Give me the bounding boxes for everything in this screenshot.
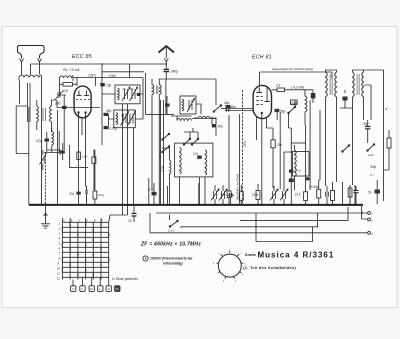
resistor box x332.5 — [331, 191, 335, 201]
wire right rail down — [383, 108, 385, 201]
band button D — [106, 286, 111, 292]
svg-text:Ph: Ph — [115, 287, 119, 291]
wire r20k — [267, 128, 274, 188]
capacitor left polarized — [85, 186, 88, 204]
wire box links — [102, 78, 143, 127]
wire 30p left — [78, 190, 80, 204]
terminal e3 — [368, 231, 371, 234]
coil L1 primary (horizontal bumps) — [19, 75, 42, 81]
capacitor blob 0,5u left2 — [61, 151, 65, 154]
band button F — [80, 286, 85, 292]
svg-text:D: D — [108, 287, 110, 291]
wire drop x154 — [153, 183, 155, 204]
tube V2 right electrode — [265, 88, 270, 102]
svg-text:+105: +105 — [108, 74, 116, 78]
box1 coil — [118, 88, 120, 100]
wire x57.5 long drop — [57, 110, 59, 204]
osc coil 1 — [180, 148, 182, 174]
wire coil to blob — [171, 116, 216, 136]
capacitor C blob 0,25u — [104, 126, 109, 129]
wire left box edge x145.4 — [145, 73, 174, 114]
line L1 y213 — [156, 212, 367, 214]
wire switch to cap — [221, 108, 226, 110]
svg-text:2: 2 — [58, 226, 61, 230]
IF T1 winding b — [335, 72, 337, 97]
svg-text:ECC 85: ECC 85 — [72, 54, 92, 60]
capacitor blob 5n mid — [165, 104, 170, 107]
line L2 y220.4 from corner x348 — [240, 204, 367, 220]
box2 coil — [116, 113, 118, 125]
wire left cluster — [93, 149, 95, 190]
wire verticals pair x122.5/127.5 — [110, 104, 128, 215]
wire rail y72 top — [260, 72, 333, 86]
wire into tube left: caps — [226, 105, 231, 108]
wire x57 down — [57, 95, 64, 118]
wire bus to ground — [44, 204, 48, 223]
wire rail y71.8 box top — [102, 71, 144, 73]
capacitor 30p right plates — [365, 127, 371, 129]
box1 trimmer arrows — [122, 87, 130, 101]
switch S2 diagonal U41 — [288, 107, 296, 114]
svg-text:0,5µ: 0,5µ — [98, 193, 104, 197]
svg-text:12: 12 — [57, 276, 61, 280]
matrix grid horizontals — [62, 222, 108, 277]
tube V1 anodes — [77, 91, 90, 96]
core lines FM transformer — [157, 86, 158, 95]
wire dial cord dashed x242.5 — [242, 90, 244, 204]
wire drop x148.8 — [148, 178, 150, 204]
wire rail y79 — [159, 78, 216, 80]
svg-text:ZF = 460kHz + 10,7MHz: ZF = 460kHz + 10,7MHz — [140, 242, 201, 248]
wire switch drop — [169, 215, 171, 228]
osc blob 12p — [197, 156, 202, 159]
capacitor blob 5n right — [375, 190, 381, 194]
svg-text:B: B — [71, 218, 73, 222]
svg-text:21 k: 21 k — [294, 193, 301, 197]
capacitor blob x291 — [289, 179, 294, 183]
coil M-band left — [52, 132, 54, 146]
socket pins ticks — [216, 251, 243, 279]
junction dots on bus — [45, 203, 47, 205]
tube V2 cathode dot — [261, 112, 263, 114]
tube V2 grid dashes — [256, 97, 263, 105]
components left of tube: trimmer C — [55, 91, 66, 100]
wire vertical x102 — [101, 64, 103, 145]
capacitor C 240p plates — [164, 69, 170, 71]
wire mid link — [162, 148, 170, 156]
wire antenna legs down — [22, 62, 40, 75]
line L4 y232.8 — [150, 232, 367, 234]
wire V2 anode out right — [272, 89, 314, 91]
wire solid vertical x239.6 — [239, 114, 241, 204]
wire y110 left into tube — [225, 110, 253, 112]
svg-text:reflexmäßig): reflexmäßig) — [163, 262, 183, 266]
IF T2 core — [357, 74, 359, 95]
coil L4 top — [60, 76, 74, 81]
core lines T1 — [28, 83, 31, 122]
extra vertical rail x95.5 tube top — [95, 78, 97, 87]
svg-text:12p: 12p — [193, 152, 198, 156]
wire tube bottom leads — [257, 113, 267, 186]
svg-text:5+3: 5+3 — [296, 169, 301, 173]
socket pin numbers — [213, 249, 246, 283]
antenna A2 dipole chevron — [159, 46, 175, 53]
box trimmer — [187, 99, 195, 113]
IF T1 wires — [326, 70, 337, 108]
matrix row numbers — [57, 221, 61, 280]
wire osc connections — [194, 104, 216, 124]
svg-text:2 k: 2 k — [275, 84, 281, 88]
wire UKW switch drop — [289, 100, 296, 170]
wire 5n — [376, 180, 378, 204]
svg-text:a 41: a 41 — [368, 153, 374, 157]
trimmer pair mid bottom — [211, 189, 219, 201]
wire below L1 — [20, 81, 42, 205]
resistor R1 47ohm — [63, 83, 73, 87]
svg-text:21,6: 21,6 — [251, 193, 258, 197]
coil IF2 secondary low — [295, 150, 297, 177]
tube V1 grid dashes — [76, 99, 90, 101]
FM tuner box1 — [115, 85, 140, 104]
matrix contact marks — [62, 223, 108, 277]
small winding left of box — [170, 160, 172, 174]
svg-text:20k: 20k — [276, 143, 283, 147]
switch right low — [342, 145, 350, 152]
svg-text:5n: 5n — [368, 191, 372, 195]
ground symbol — [41, 224, 50, 228]
capacitor C blob at tube left — [62, 106, 67, 109]
wire verticals x160/x163 mid — [161, 100, 164, 183]
wire left2 — [62, 143, 64, 160]
small box left mid — [47, 150, 60, 155]
capacitor blob 40p mid — [212, 124, 217, 127]
wire right rail lower — [384, 160, 390, 170]
wire vertical x229 with resistor 10n — [228, 115, 230, 204]
svg-text:1µ: 1µ — [128, 219, 132, 223]
oscillator box — [175, 143, 213, 177]
svg-text:1,5k: 1,5k — [82, 155, 88, 159]
wire rail y107.5 through tube — [57, 107, 100, 109]
coil L3 vertical — [50, 106, 52, 122]
resistor R 10n — [227, 191, 231, 198]
svg-text:10n: 10n — [221, 193, 226, 197]
svg-text:50p: 50p — [280, 110, 286, 114]
svg-text:10p: 10p — [106, 84, 112, 88]
wire long vertical x28.8 to bus — [29, 107, 46, 204]
circled note symbol — [143, 256, 148, 261]
wire blob — [312, 90, 314, 103]
FM tuner box2 — [114, 110, 136, 128]
wire fm windings tails — [152, 79, 159, 204]
switch S3 right — [367, 144, 375, 151]
capacitor C 40p plates — [227, 106, 229, 112]
resistor box x350 — [348, 188, 352, 197]
wire left station x45.4 dashed to bus — [44, 152, 46, 204]
svg-text:a: a — [386, 107, 388, 111]
IF T2 winding a — [353, 72, 355, 97]
core lines T2 — [43, 108, 46, 121]
wire drops trimmers — [215, 185, 223, 204]
capacitor plates x230 — [230, 193, 232, 198]
resistor R 20k below tube — [271, 140, 275, 148]
antenna A1 arrowheads — [20, 59, 42, 63]
wire switches to box top — [184, 128, 198, 139]
wire vertical x216 rail to switch — [215, 79, 217, 105]
capacitor blob 7n right — [311, 93, 316, 99]
resistor R right vertical — [387, 138, 391, 148]
svg-text:F: F — [101, 218, 103, 222]
capacitor plates x355 — [354, 191, 359, 193]
junction dot — [211, 117, 213, 119]
wire rail y64 from antenna to FM antenna — [31, 64, 167, 75]
wire drops — [274, 186, 284, 204]
trimmer bottom left — [40, 154, 47, 165]
wire corner left L4 — [150, 213, 181, 233]
tube V2 ECH81 envelope — [253, 85, 271, 118]
svg-text:D: D — [86, 218, 88, 222]
svg-text:128 k: 128 k — [88, 74, 96, 78]
wire around L4/R1 — [60, 78, 78, 96]
resistor R 1,5k on tube lead — [77, 152, 81, 160]
wire L-corner x69.6 — [70, 145, 88, 168]
wire x345 blob chain — [340, 90, 353, 108]
wire x350 — [349, 185, 351, 204]
tube V1 ECC85 envelope — [74, 86, 91, 118]
capacitor blob 0,1u — [152, 192, 157, 196]
switch S1 diagonal — [214, 105, 222, 112]
resistor R 2k horizontal — [277, 88, 285, 92]
matrix column letters — [62, 218, 104, 222]
capacitor blob 50p below tube right — [275, 109, 280, 112]
wire x86 upper — [86, 145, 87, 186]
wire IF leads down right — [326, 108, 364, 186]
tube V2 anode T — [257, 88, 263, 93]
wire trimmer bl — [42, 150, 44, 170]
switch M K U stack — [162, 134, 170, 153]
resistor box x305.5 — [304, 192, 308, 201]
svg-text:5,1Ω: 5,1Ω — [161, 165, 165, 172]
wire c2 — [129, 64, 131, 78]
svg-text:( 4,2 mA): ( 4,2 mA) — [291, 86, 304, 90]
svg-text:ECH 81: ECH 81 — [252, 55, 272, 61]
band button L — [98, 286, 103, 292]
svg-text:Pb↓ 7,5 mA: Pb↓ 7,5 mA — [63, 68, 79, 72]
wire x133.5 drop — [133, 128, 135, 205]
svg-text:Graetz: Graetz — [245, 253, 256, 257]
svg-text:3/9p: 3/9p — [370, 165, 376, 169]
trimmer pair x271-286 — [270, 189, 278, 201]
IF T2 winding b — [362, 72, 364, 97]
wire secondary tails — [37, 100, 57, 132]
capacitor plates x327 — [326, 192, 328, 197]
svg-text:30p: 30p — [69, 191, 74, 195]
resistor box x318.7 — [317, 189, 321, 198]
tube V1 cathode dots — [77, 111, 79, 113]
svg-text:U-Taste gedrückt: U-Taste gedrückt — [112, 277, 139, 281]
line L3 y226.8 — [181, 213, 318, 227]
svg-text:U: U — [72, 287, 74, 291]
svg-text:900: 900 — [55, 102, 61, 106]
wire 30p — [367, 120, 369, 143]
wire ECH comb risers — [277, 112, 305, 189]
svg-text:Musica 4 R/3361: Musica 4 R/3361 — [258, 251, 335, 260]
resistor box x241 — [239, 192, 243, 201]
svg-text:3 ↓: 3 ↓ — [370, 173, 375, 177]
capacitor C blob 40p left — [104, 113, 109, 116]
wire IF1 mid horizontal — [364, 85, 372, 120]
svg-text:M(UKW)-L/Sa (Tast): M(UKW)-L/Sa (Tast) — [235, 174, 239, 200]
socket circle — [218, 254, 241, 277]
capacitor blob near IF2 — [289, 170, 293, 173]
wire osc box drops — [170, 156, 206, 204]
terminal e1 — [368, 212, 371, 215]
svg-text:11: 11 — [57, 271, 60, 275]
switch pair above box — [184, 139, 199, 146]
coil L horizontal at y118 — [198, 116, 210, 118]
capacitor C below bus 0,1u — [132, 214, 137, 217]
svg-text:47p: 47p — [36, 139, 42, 143]
junction dot rail y64 — [165, 63, 167, 65]
band button Ph filled — [115, 286, 120, 292]
svg-text:0,25µ: 0,25µ — [109, 127, 117, 131]
IF T1 core — [330, 74, 332, 95]
wire rail y77.5 — [77, 77, 143, 79]
resistor box x258 — [256, 191, 260, 200]
matrix grid verticals — [62, 222, 108, 279]
antenna A1 — [18, 46, 45, 59]
wire AM coupling loop — [16, 106, 29, 154]
wire tube V1 leads down — [79, 113, 86, 191]
box2 trimmer arrows — [121, 112, 129, 126]
terminal e2 — [368, 218, 371, 221]
band buttons leads — [73, 277, 109, 285]
junction dots rails — [101, 63, 103, 65]
svg-text:10: 10 — [57, 266, 61, 270]
svg-text:40p: 40p — [218, 125, 224, 129]
wire cap to tube — [229, 108, 253, 110]
wire x64 mid drop — [63, 118, 65, 150]
wire x355b — [355, 186, 357, 204]
capacitor blob 30p left comb — [76, 192, 80, 195]
resistor small left cluster — [92, 157, 96, 163]
svg-text:40p: 40p — [106, 109, 112, 113]
svg-text:240p: 240p — [170, 70, 179, 74]
svg-text:40p: 40p — [224, 101, 230, 105]
FM input transformer windings — [152, 85, 154, 95]
switch S below bus — [170, 221, 179, 228]
capacitor blob right of box1 — [137, 93, 141, 96]
svg-text:(1. Teil des Schaltbildes): (1. Teil des Schaltbildes) — [243, 265, 296, 270]
coil horizontal y118 — [177, 119, 191, 121]
svg-text:2 a 1: 2 a 1 — [167, 229, 175, 233]
wire y143 link — [291, 142, 305, 144]
antenna A2 lead with arrow — [164, 48, 168, 70]
capacitor C1 blob 47p — [45, 139, 50, 142]
coil L2 secondary vertical — [37, 106, 39, 122]
box coil — [182, 99, 184, 111]
svg-text:M K U: M K U — [158, 149, 162, 158]
capacitor blob between IFs — [343, 97, 348, 101]
IF2 box outline — [293, 152, 310, 177]
coil IF primary mid — [305, 96, 307, 112]
box UKW label — [291, 100, 298, 105]
band button M — [89, 286, 94, 292]
wire c1 — [46, 132, 48, 150]
wire 5n — [166, 96, 168, 115]
IF T2 wires — [353, 70, 384, 108]
svg-text:100Ω/V (Klemmenwerte bei: 100Ω/V (Klemmenwerte bei — [150, 257, 192, 261]
resistor R 0,5u box left — [93, 191, 97, 199]
osc coil 2 — [205, 150, 207, 175]
bus main thick — [29, 204, 363, 206]
svg-text:25 k: 25 k — [243, 141, 247, 148]
wire coil tails — [304, 90, 306, 125]
wire coil IF2 tails — [294, 145, 296, 190]
svg-text:F: F — [82, 287, 84, 291]
capacitor C2 blob 10p — [100, 83, 105, 86]
wire drops misc to bus — [161, 182, 356, 204]
IF T1 winding a — [326, 72, 328, 97]
band button U — [71, 286, 76, 292]
wire below 240p — [165, 72, 167, 79]
wire r right — [388, 130, 390, 160]
wire r left — [94, 150, 96, 204]
line L5 y241.5 — [256, 213, 312, 242]
FM ratio detector box — [180, 96, 196, 114]
wire x320 down — [319, 110, 320, 180]
capacitor blob 30-40p — [305, 177, 309, 180]
matrix leads from above — [62, 215, 110, 222]
svg-text:abgeschaltet bei UKW-Empfang: abgeschaltet bei UKW-Empfang — [272, 67, 313, 71]
wire M coil frame — [44, 128, 59, 153]
svg-text:E: E — [94, 218, 96, 222]
wire vertical x310 — [309, 100, 311, 190]
